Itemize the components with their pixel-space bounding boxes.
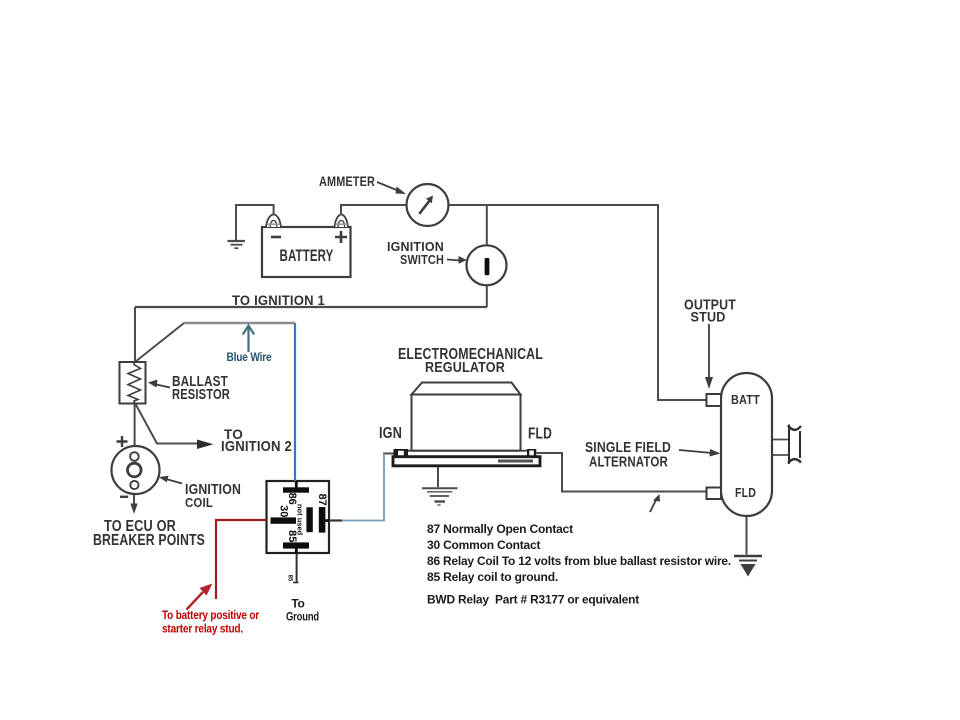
svg-text:Blue Wire: Blue Wire [227, 350, 272, 364]
svg-text:To: To [291, 597, 304, 611]
svg-text:To battery positive or: To battery positive or [162, 610, 260, 622]
svg-text:IGNITION 2: IGNITION 2 [221, 438, 292, 455]
svg-text:BREAKER POINTS: BREAKER POINTS [93, 532, 205, 549]
svg-text:30 Common Contact: 30 Common Contact [427, 538, 540, 552]
svg-text:FLD: FLD [528, 426, 552, 443]
svg-text:Ground: Ground [286, 610, 319, 624]
svg-text:STUD: STUD [691, 309, 726, 325]
svg-text:SWITCH: SWITCH [400, 253, 444, 267]
svg-text:COIL: COIL [185, 495, 213, 510]
svg-text:not used: not used [296, 504, 305, 536]
svg-text:85 Relay coil to ground.: 85 Relay coil to ground. [427, 570, 558, 584]
svg-text:BATTERY: BATTERY [280, 246, 334, 265]
svg-text:IGNITION: IGNITION [387, 239, 444, 254]
svg-text:87: 87 [316, 493, 328, 505]
svg-text:RESISTOR: RESISTOR [172, 386, 230, 403]
svg-text:IGN: IGN [379, 425, 402, 442]
svg-text:AMMETER: AMMETER [319, 173, 375, 189]
svg-text:85: 85 [287, 575, 293, 582]
svg-text:TO IGNITION 1: TO IGNITION 1 [232, 292, 325, 308]
svg-text:BATT: BATT [731, 393, 760, 407]
svg-text:REGULATOR: REGULATOR [425, 359, 505, 376]
svg-text:starter relay stud.: starter relay stud. [162, 624, 243, 636]
svg-text:BWD Relay Part # R3177 or equ: BWD Relay Part # R3177 or equivalent [427, 593, 639, 607]
svg-text:FLD: FLD [735, 485, 756, 500]
svg-text:87 Normally Open Contact: 87 Normally Open Contact [427, 522, 573, 536]
svg-text:30: 30 [277, 505, 289, 517]
svg-text:86 Relay Coil To 12 volts from: 86 Relay Coil To 12 volts from blue ball… [427, 554, 731, 568]
svg-text:ALTERNATOR: ALTERNATOR [589, 454, 668, 471]
